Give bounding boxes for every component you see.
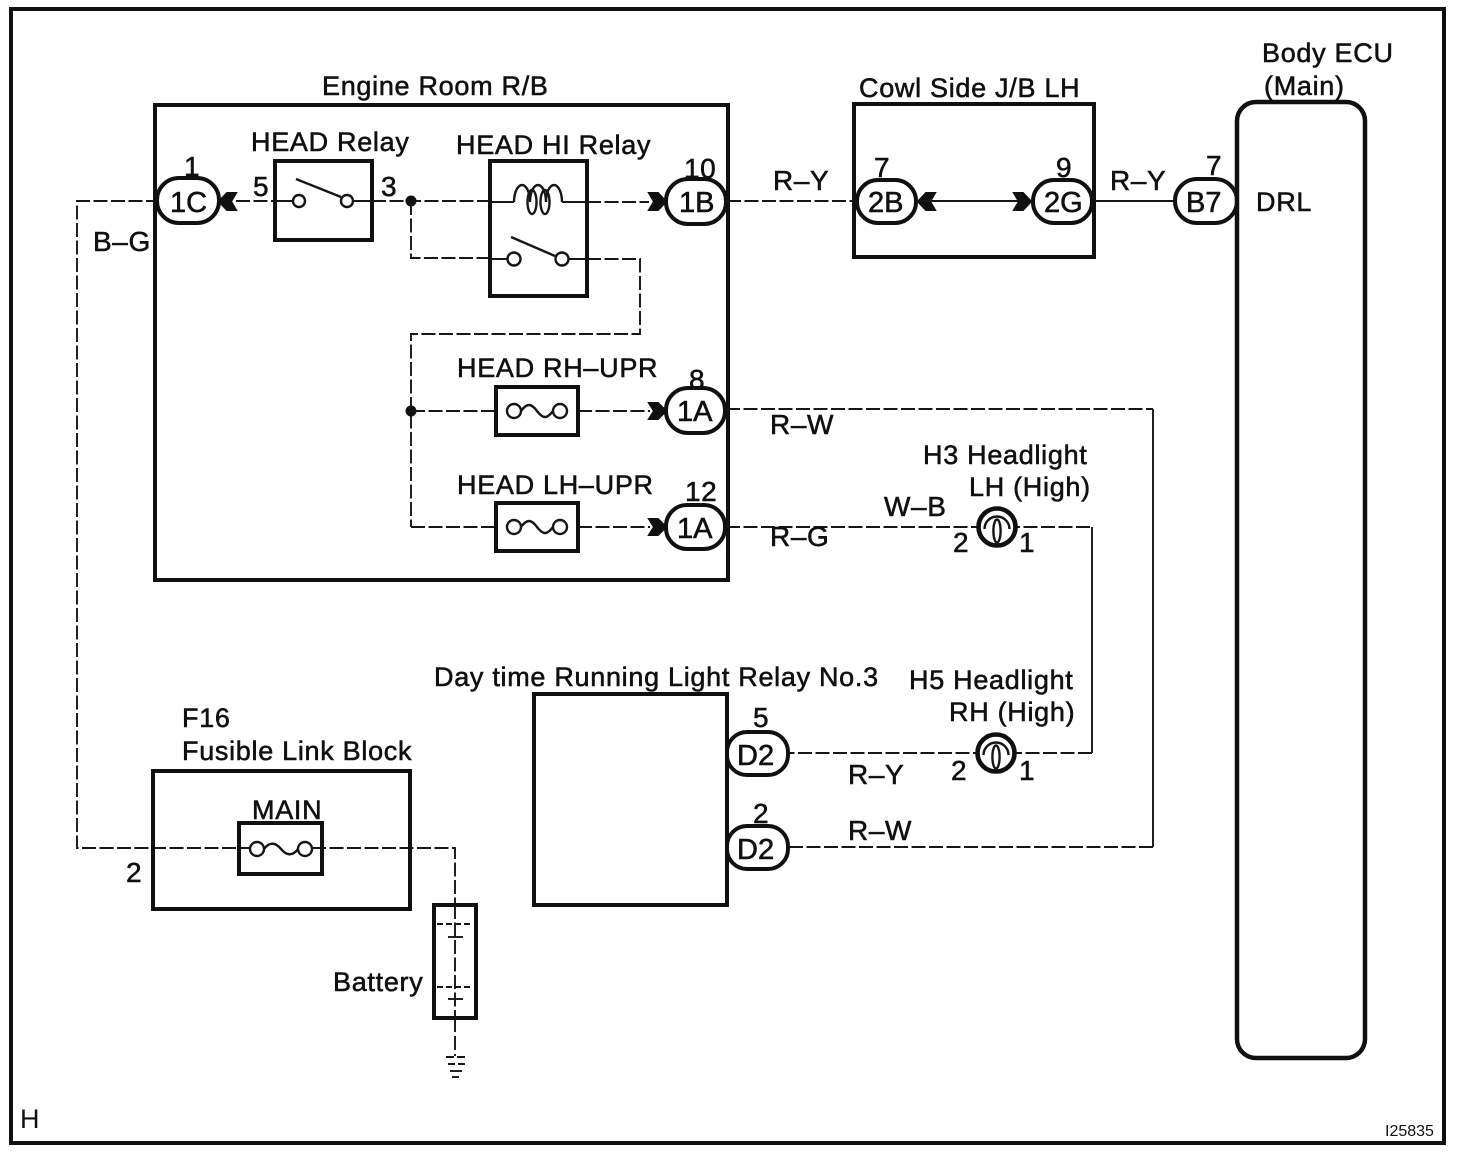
svg-text:Cowl Side J/B LH: Cowl Side J/B LH: [859, 73, 1080, 103]
wire 1A(8) R-W to D2(2): [726, 408, 1153, 410]
svg-text:1: 1: [184, 151, 200, 182]
svg-text:HEAD RH–UPR: HEAD RH–UPR: [457, 353, 658, 383]
wire 2B to 2G: [918, 200, 1032, 202]
svg-text:Day time Running Light Relay N: Day time Running Light Relay No.3: [434, 662, 879, 692]
svg-text:8: 8: [689, 364, 705, 395]
svg-text:Body ECU: Body ECU: [1262, 38, 1394, 68]
wire fuse to 1A(8): [578, 410, 650, 412]
svg-text:5: 5: [753, 702, 769, 733]
svg-text:1A: 1A: [677, 396, 713, 428]
svg-text:R–W: R–W: [770, 409, 834, 440]
svg-text:Fusible Link Block: Fusible Link Block: [182, 736, 412, 766]
svg-text:3: 3: [381, 171, 397, 202]
svg-text:2B: 2B: [868, 187, 903, 219]
arrow into 1B: [649, 193, 666, 210]
HEAD HI Relay: [490, 161, 587, 296]
connector B7 pin 7: [1175, 179, 1237, 223]
svg-text:12: 12: [685, 476, 717, 507]
connector 2B pin 7: [857, 180, 916, 223]
svg-text:R–Y: R–Y: [773, 165, 829, 196]
wire 1B to 2B, R-Y: [727, 200, 857, 202]
svg-text:R–Y: R–Y: [848, 759, 904, 790]
svg-text:LH (High): LH (High): [969, 472, 1091, 502]
connector D2 pin 2: [727, 826, 788, 869]
arrow into 2G: [1014, 193, 1031, 210]
svg-text:R–W: R–W: [848, 815, 912, 846]
svg-text:F16: F16: [182, 703, 231, 733]
svg-text:B–G: B–G: [93, 226, 151, 257]
wire junction down to HI relay switch: [411, 201, 490, 258]
svg-text:1B: 1B: [679, 187, 714, 219]
svg-text:Battery: Battery: [333, 967, 423, 997]
wire 1A(12) R-G / W-B to H3 and down: [726, 526, 1092, 528]
svg-text:B7: B7: [1186, 187, 1221, 219]
arrow into 1A(12): [649, 519, 666, 535]
svg-text:1: 1: [1019, 527, 1035, 558]
wire battery to ground: [454, 1018, 456, 1056]
svg-text:R–G: R–G: [770, 521, 829, 552]
svg-text:2: 2: [753, 798, 769, 829]
junction node: [406, 196, 417, 207]
connector 1C: [157, 178, 219, 223]
HEAD Relay: [275, 161, 372, 240]
svg-text:HEAD HI Relay: HEAD HI Relay: [456, 130, 651, 160]
wire HEAD relay to HEAD HI relay coil: [372, 200, 490, 202]
HI relay switch: [490, 258, 508, 260]
Day time Running Light Relay No.3 block: [534, 694, 727, 905]
svg-text:7: 7: [874, 152, 890, 183]
svg-text:1C: 1C: [170, 187, 207, 219]
arrow into 1A(8): [649, 403, 666, 419]
Body ECU (Main) block: [1237, 102, 1365, 1058]
F16 Fusible Link Block: [153, 771, 410, 909]
svg-text:2G: 2G: [1044, 187, 1083, 219]
ground: [446, 1056, 468, 1058]
connector 1A pin 12: [666, 505, 725, 549]
wire 2G to B7, R-Y: [1092, 200, 1175, 202]
svg-text:2: 2: [951, 755, 967, 786]
wire 1C to HEAD relay: [236, 200, 275, 202]
wire to HEAD RH-UPR fuse: [411, 410, 496, 412]
connector 2G pin 9: [1033, 180, 1092, 223]
svg-text:RH (High): RH (High): [949, 697, 1075, 727]
connector 1B pin 10: [666, 179, 726, 224]
connector 1A pin 8: [666, 388, 725, 433]
svg-text:H3 Headlight: H3 Headlight: [923, 440, 1088, 470]
wire coil to 1B: [587, 201, 649, 203]
svg-text:10: 10: [684, 153, 716, 184]
wire B-G from 1C down to fusible link: [77, 201, 250, 848]
wire fuse to 1A(12): [578, 526, 650, 528]
svg-text:Engine Room R/B: Engine Room R/B: [322, 71, 549, 101]
HEAD relay contacts: [275, 200, 293, 202]
svg-text:I25835: I25835: [1385, 1123, 1434, 1140]
svg-text:H5 Headlight: H5 Headlight: [909, 665, 1074, 695]
svg-text:HEAD LH–UPR: HEAD LH–UPR: [457, 470, 654, 500]
arrow into 1C: [219, 193, 236, 210]
svg-text:2: 2: [126, 857, 142, 888]
svg-text:1: 1: [1019, 755, 1035, 786]
svg-text:DRL: DRL: [1256, 187, 1312, 217]
svg-text:D2: D2: [737, 834, 774, 866]
wire fuse to battery: [312, 848, 455, 905]
wire HI relay switch to fuse branch: [411, 259, 640, 527]
junction node fuse branch: [406, 406, 417, 417]
svg-text:7: 7: [1206, 150, 1222, 181]
svg-text:HEAD Relay: HEAD Relay: [251, 127, 410, 157]
connector D2 pin 5: [727, 732, 788, 775]
svg-text:9: 9: [1056, 152, 1072, 183]
HI relay coil: [490, 201, 514, 203]
svg-text:(Main): (Main): [1264, 71, 1345, 101]
svg-text:R–Y: R–Y: [1110, 165, 1166, 196]
svg-text:D2: D2: [737, 740, 774, 772]
wire to HEAD LH-UPR fuse: [411, 526, 496, 528]
svg-text:5: 5: [253, 171, 269, 202]
svg-text:H: H: [20, 1104, 40, 1134]
svg-text:2: 2: [953, 527, 969, 558]
svg-text:W–B: W–B: [884, 491, 946, 522]
svg-text:MAIN: MAIN: [252, 795, 322, 825]
Cowl Side J/B LH block: [854, 104, 1094, 257]
arrow into 2B: [918, 193, 935, 210]
Engine Room R/B block: [155, 105, 728, 580]
svg-text:1A: 1A: [677, 513, 713, 545]
